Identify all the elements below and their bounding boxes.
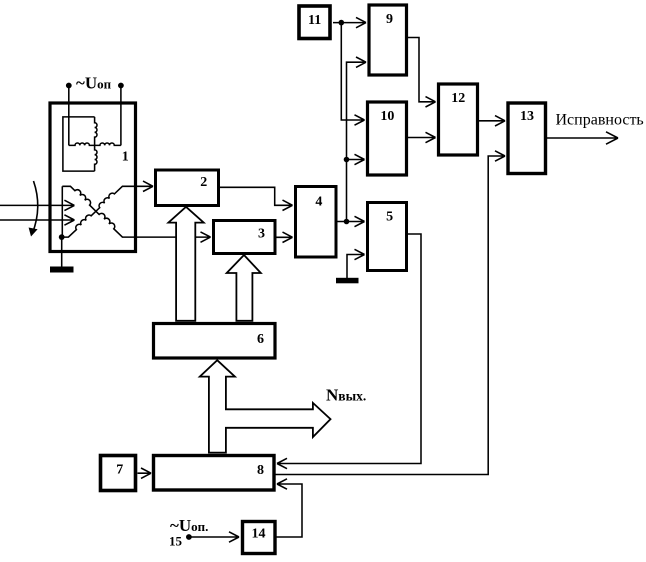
wire 9 to 12 [408, 38, 436, 108]
svg-text:15: 15 [169, 534, 183, 549]
svg-text:9: 9 [386, 12, 393, 27]
block 12 [439, 84, 478, 155]
svg-text:6: 6 [257, 332, 264, 347]
resolver vertical winding [95, 117, 97, 171]
wire block3 to block4 [276, 232, 293, 242]
block 14 [243, 522, 276, 554]
block 3 [214, 221, 276, 254]
block 1 [50, 103, 136, 252]
wire Uop left feed [68, 86, 70, 146]
wire block1 to block3 [136, 232, 211, 242]
svg-text:10: 10 [380, 109, 394, 124]
svg-text:14: 14 [252, 527, 266, 542]
svg-text:1: 1 [122, 150, 129, 165]
terminal dot Uop left [66, 83, 72, 89]
wire net C vertical 13 input2 to block8 [276, 151, 506, 475]
block 2 [156, 170, 219, 206]
resolver stator C-frame [63, 117, 95, 171]
block 11 [299, 6, 330, 39]
block 9 [369, 5, 407, 75]
svg-text:Исправность: Исправность [556, 112, 644, 129]
svg-text:8: 8 [257, 463, 264, 478]
junction dot net B at 10 input [344, 157, 350, 163]
resolver left stub vertical [61, 186, 63, 237]
svg-text:7: 7 [116, 463, 123, 478]
wire mechanical input line 2 [0, 215, 74, 225]
resolver horizontal excitation winding [69, 143, 121, 145]
resolver X winding diagonal BL-TR [62, 186, 136, 237]
wire net B vertical to 10 and 9 [347, 57, 367, 222]
rotation arc with arrowhead [33, 181, 38, 233]
block 13 [508, 103, 546, 174]
wire 7 to 8 [138, 468, 152, 478]
junction dot block1 winding tap [59, 234, 65, 240]
block 7 [101, 456, 136, 491]
svg-text:4: 4 [315, 195, 322, 210]
svg-text:12: 12 [451, 91, 465, 106]
svg-text:~Uоп.: ~Uоп. [170, 516, 208, 535]
hollow arrow U1: block8 up to block6 with Nvyh branch [200, 360, 331, 452]
ground under block1 [50, 267, 74, 273]
ground near block5 [336, 278, 359, 284]
svg-text:3: 3 [258, 227, 265, 242]
terminal dot Uop right [118, 83, 124, 89]
wire net D block5 output to block8 [277, 234, 421, 469]
wire 12 to 13 [479, 116, 505, 126]
svg-text:13: 13 [520, 109, 534, 124]
junction dot net B at 4-5 wire [344, 219, 350, 225]
wire block1 to block2 [136, 181, 153, 191]
wire block2 to block4 [219, 187, 293, 210]
svg-text:5: 5 [386, 210, 393, 225]
wire mechanical input line 1 [0, 200, 74, 210]
svg-text:11: 11 [308, 13, 321, 28]
svg-text:2: 2 [200, 175, 207, 190]
wire 13 output ispravnost [547, 132, 618, 144]
wire 10 to 12 [408, 132, 436, 142]
block 6 [154, 324, 276, 359]
block 5 [368, 203, 407, 271]
wire ground stub to block5 input2 [347, 249, 365, 278]
block 8 [154, 456, 275, 491]
wire 11 to 9 [333, 17, 366, 27]
wire 14 loop to block8 [276, 479, 302, 537]
hollow arrow U2: block6 up to block2 [168, 207, 203, 321]
block 4 [296, 187, 337, 258]
wire 15 input to 14 [189, 532, 239, 542]
svg-text:Nвых.: Nвых. [326, 386, 366, 405]
wire block4 to block5 with net B risers [337, 216, 365, 226]
block 10 [368, 102, 407, 175]
hollow arrow U3: block6 up to block3 [227, 255, 261, 321]
terminal dot 15 [186, 534, 192, 540]
wire Uop right feed [120, 86, 122, 146]
wire line A from 11-9 net down to 10 input1 [341, 23, 364, 126]
resolver X winding diagonal TL-BR [62, 186, 136, 237]
junction dot on 11-9 wire [339, 20, 345, 26]
svg-text:~Uоп: ~Uоп [76, 74, 112, 93]
wire block1 ground drop [61, 237, 63, 266]
